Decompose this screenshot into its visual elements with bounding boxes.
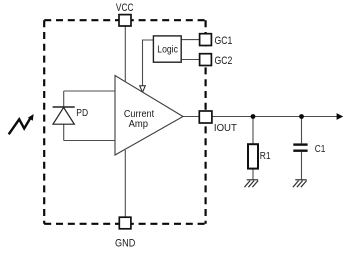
IC dashed boundary box bbox=[44, 20, 205, 224]
svg-text:Logic: Logic bbox=[157, 44, 178, 56]
capacitor C1 bbox=[293, 143, 307, 145]
svg-text:GND: GND bbox=[115, 237, 135, 249]
photodiode PD bbox=[53, 106, 75, 108]
ground under C1 bbox=[293, 180, 307, 187]
wire IOUT output net bbox=[212, 116, 338, 118]
wire C1 top lead bbox=[301, 117, 303, 144]
svg-text:R1: R1 bbox=[260, 151, 271, 162]
wire PD anode lead bbox=[63, 124, 65, 141]
junction node at C1 bbox=[299, 114, 304, 119]
pin VCC bbox=[119, 15, 131, 26]
wire logic feedback to amp bbox=[143, 40, 154, 86]
wire R1 top lead bbox=[252, 117, 254, 145]
wire GND drop from amp bbox=[124, 150, 126, 217]
svg-text:Amp: Amp bbox=[129, 118, 149, 130]
wire logic to GC1 bbox=[181, 39, 199, 41]
pin GND bbox=[119, 217, 131, 229]
incident light arrow bbox=[9, 118, 31, 134]
logic block U1 bbox=[153, 36, 181, 62]
resistor R1 bbox=[248, 144, 258, 168]
pin GC2 bbox=[200, 54, 212, 66]
op-amp current amplifier triangle bbox=[115, 76, 183, 156]
svg-text:GC1: GC1 bbox=[215, 35, 233, 47]
wire PD bottom to amp input bbox=[64, 140, 115, 142]
junction node at R1 bbox=[251, 114, 256, 119]
wire R1 bottom lead bbox=[252, 169, 254, 180]
open arrowhead into amp bbox=[140, 86, 146, 93]
wire VCC drop to amp bbox=[124, 26, 126, 82]
svg-text:VCC: VCC bbox=[116, 2, 134, 14]
svg-text:PD: PD bbox=[76, 108, 88, 119]
arrowhead output net bbox=[337, 113, 344, 120]
svg-text:GC2: GC2 bbox=[215, 55, 233, 67]
wire PD top to amp input bbox=[64, 90, 115, 92]
svg-text:C1: C1 bbox=[315, 144, 326, 155]
gap in border between GC1 and GC2 bbox=[203, 46, 208, 53]
pin GC1 bbox=[200, 34, 212, 46]
wire PD cathode lead bbox=[63, 91, 65, 107]
wire C1 bottom lead bbox=[301, 152, 303, 180]
svg-text:IOUT: IOUT bbox=[214, 123, 238, 134]
ground under R1 bbox=[244, 180, 258, 187]
pin IOUT bbox=[199, 111, 212, 123]
wire logic to GC2 bbox=[181, 59, 199, 61]
wire amp output to IOUT pin bbox=[183, 116, 199, 118]
